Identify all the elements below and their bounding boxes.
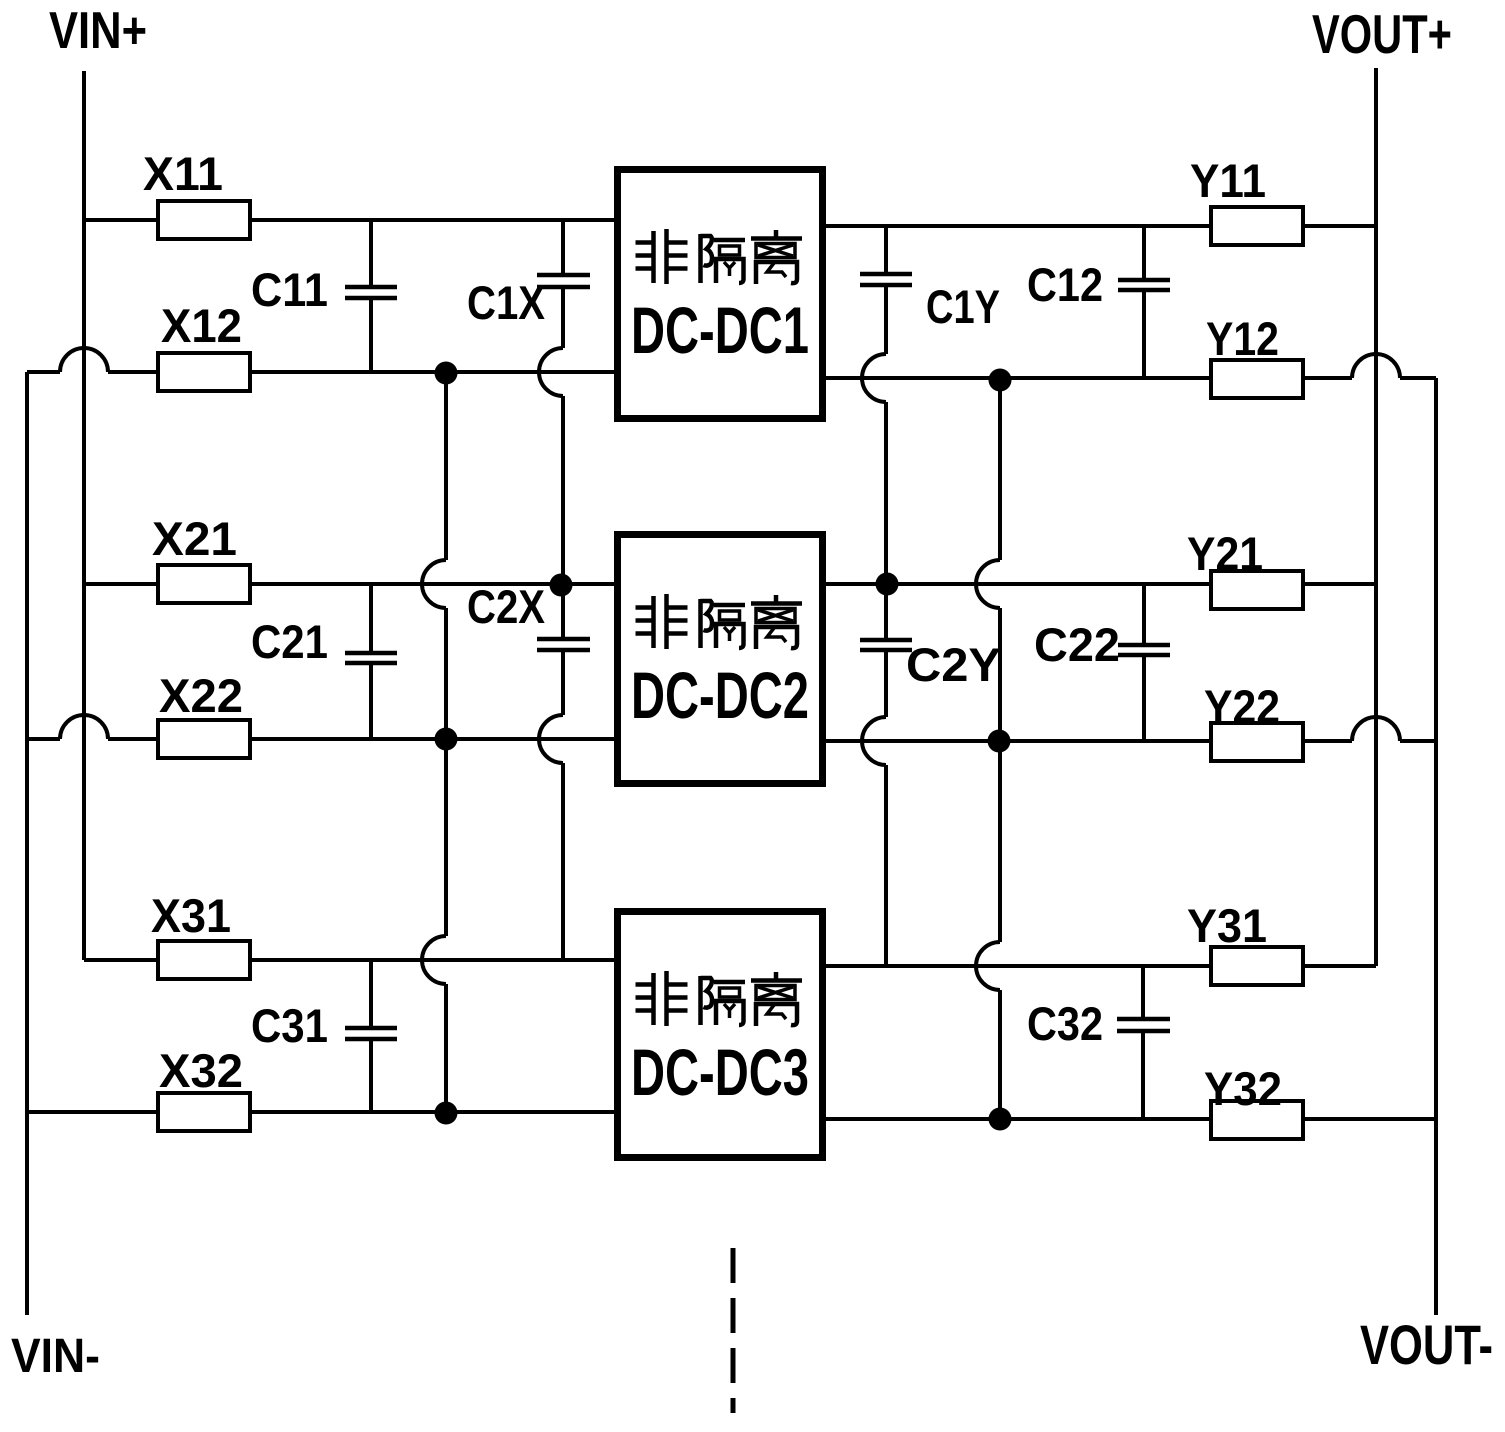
wire row1 left <box>84 218 617 222</box>
resistor Y11 <box>1211 207 1303 245</box>
svg-text:DC-DC1: DC-DC1 <box>631 293 809 367</box>
svg-text:X11: X11 <box>143 147 223 200</box>
junction dot row4 column B <box>988 730 1011 753</box>
capacitor C22 <box>1118 584 1170 741</box>
resistor Y21 <box>1211 571 1303 609</box>
wire hop row4 over VIN+ rail <box>60 715 108 739</box>
svg-text:Y22: Y22 <box>1204 680 1280 733</box>
svg-text:X21: X21 <box>152 512 237 565</box>
junction dot row3 C2Y <box>876 573 899 596</box>
wire row4 left <box>27 737 60 741</box>
wire hop column B over row3 <box>976 560 1000 608</box>
svg-text:VOUT+: VOUT+ <box>1312 3 1452 65</box>
junction dot row3 C2X <box>550 574 573 597</box>
svg-text:X22: X22 <box>159 669 243 722</box>
wire VOUT- right vertical rail <box>1434 378 1438 1315</box>
resistor Y22 <box>1211 723 1303 761</box>
svg-text:Y32: Y32 <box>1204 1062 1282 1115</box>
wire VOUT+ vertical rail <box>1374 68 1378 966</box>
resistor Y12 <box>1211 360 1303 398</box>
resistor Y31 <box>1211 947 1303 985</box>
wire hop row4 over VOUT+ rail <box>1352 717 1400 741</box>
label 非隔离 block1 <box>636 229 803 284</box>
wire VIN- left vertical rail <box>25 372 29 1315</box>
DC-DC2 converter block <box>618 535 823 784</box>
svg-text:Y12: Y12 <box>1206 312 1279 365</box>
capacitor C11 <box>345 220 397 372</box>
svg-text:C2Y: C2Y <box>906 638 1001 691</box>
wire row4 right <box>823 739 1352 743</box>
svg-text:C22: C22 <box>1034 618 1120 671</box>
capacitor C32 <box>1117 966 1170 1119</box>
capacitor C12 <box>1118 226 1170 378</box>
capacitor C21 <box>345 584 397 739</box>
svg-text:C31: C31 <box>251 999 328 1052</box>
svg-text:C1Y: C1Y <box>926 280 1000 333</box>
wire hop row2 over VOUT+ rail <box>1352 354 1400 378</box>
svg-text:VIN+: VIN+ <box>49 2 147 60</box>
capacitor C1Y and column <box>860 226 912 584</box>
svg-text:Y31: Y31 <box>1187 899 1267 952</box>
wire row6 left <box>27 1110 617 1114</box>
label 非隔离 block3 <box>636 971 803 1026</box>
wire row6 right <box>823 1117 1436 1121</box>
node column B (x=1000) <box>998 378 1002 560</box>
label 非隔离 block2 <box>636 594 803 649</box>
wire row2 right <box>823 376 1352 380</box>
resistor X32 <box>158 1093 250 1131</box>
junction dot row4 column A <box>435 728 458 751</box>
svg-text:C12: C12 <box>1027 258 1103 311</box>
capacitor C31 <box>345 960 397 1112</box>
junction dot row2 column A <box>435 362 458 385</box>
resistor X31 <box>158 941 250 979</box>
junction dot row6 column B <box>989 1108 1012 1131</box>
svg-text:C32: C32 <box>1027 997 1103 1050</box>
svg-text:VIN-: VIN- <box>11 1330 100 1383</box>
capacitor C2Y and column <box>860 584 912 966</box>
svg-text:X32: X32 <box>159 1044 243 1097</box>
svg-text:C2X: C2X <box>467 580 545 633</box>
junction dot row6 column A <box>435 1102 458 1125</box>
continuation dashed line <box>731 1248 736 1413</box>
resistor Y32 <box>1211 1101 1303 1139</box>
capacitor C1X and column <box>537 220 590 585</box>
wire hop column A over row5 <box>422 936 446 984</box>
wire row3 left <box>84 582 617 586</box>
svg-text:X31: X31 <box>151 889 231 942</box>
node column A (x=446) <box>444 372 448 560</box>
DC-DC1 converter block <box>618 170 823 419</box>
svg-text:X12: X12 <box>161 299 242 352</box>
svg-text:C1X: C1X <box>467 276 545 329</box>
wire row3 right <box>823 582 1376 586</box>
wire row2 left <box>27 370 60 374</box>
wire hop column B over row5 <box>976 942 1000 990</box>
resistor X22 <box>158 720 250 758</box>
wire hop column A over row3 <box>422 560 446 608</box>
svg-text:Y21: Y21 <box>1187 527 1263 580</box>
svg-text:Y11: Y11 <box>1190 154 1266 207</box>
junction dot row2 column B <box>989 369 1012 392</box>
resistor X21 <box>158 565 250 603</box>
capacitor C2X and column <box>537 585 590 960</box>
svg-text:C11: C11 <box>251 263 328 316</box>
wire row5 right <box>823 964 1376 968</box>
DC-DC3 converter block <box>618 912 823 1158</box>
resistor X12 <box>158 353 250 391</box>
wire row5 left <box>84 958 617 962</box>
wire hop row2 over VIN+ rail <box>60 348 108 372</box>
svg-text:DC-DC3: DC-DC3 <box>631 1035 809 1109</box>
wire VIN+ vertical rail <box>82 71 86 960</box>
resistor X11 <box>158 201 250 239</box>
svg-text:DC-DC2: DC-DC2 <box>631 658 809 732</box>
svg-text:C21: C21 <box>251 615 328 668</box>
svg-text:VOUT-: VOUT- <box>1360 1313 1493 1376</box>
wire row1 right <box>823 224 1376 228</box>
